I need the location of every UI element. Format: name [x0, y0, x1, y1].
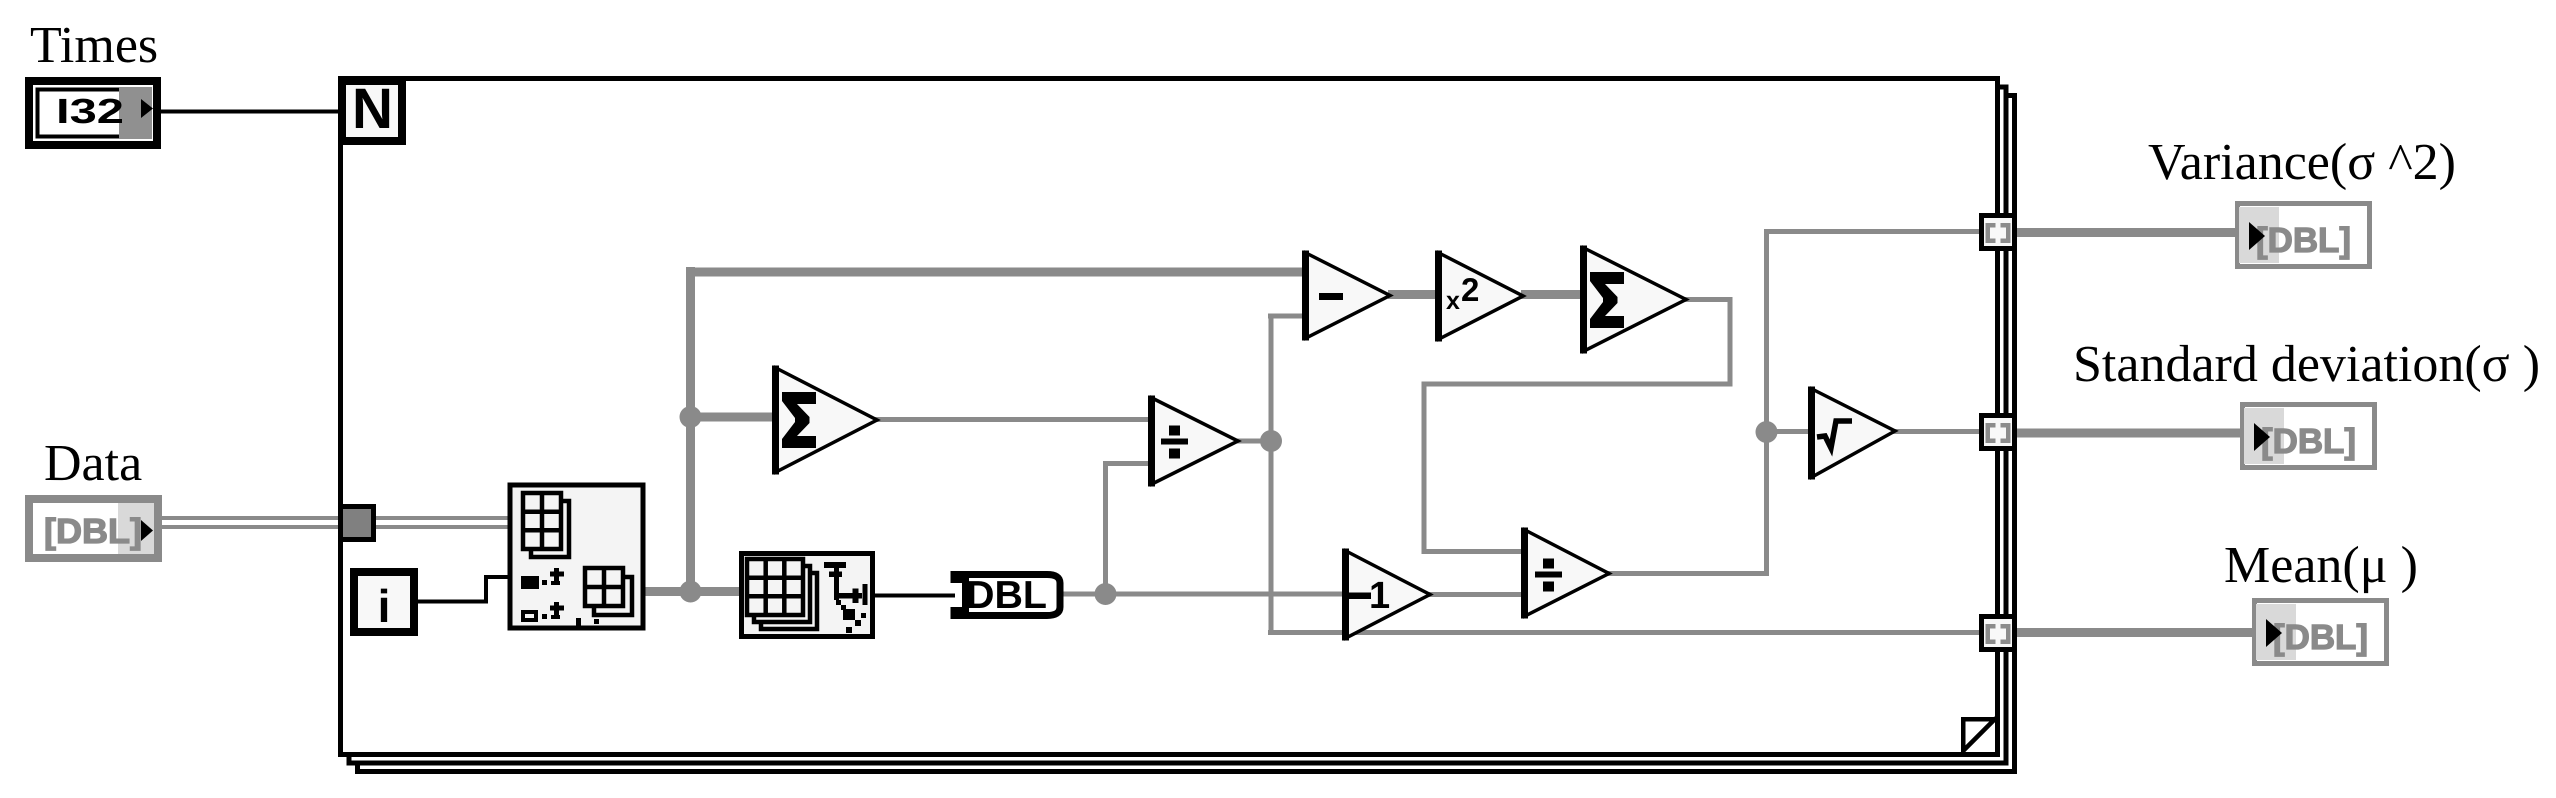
wire DBL output to Decrement input (thin): [1061, 592, 1346, 597]
loop count terminal N: [338, 77, 406, 145]
svg-text:Standard deviation(σ ): Standard deviation(σ ): [2073, 336, 2540, 393]
svg-text:x: x: [1446, 287, 1460, 315]
svg-text:N: N: [352, 77, 393, 141]
wire Std tunnel to indicator (thick): [2015, 429, 2242, 438]
wire Square output to Sum2 (thick): [1521, 290, 1584, 299]
wire Sum1 output to Divide1 (thin): [875, 417, 1152, 422]
loop resize folded corner: [1961, 717, 1996, 752]
svg-text:DBL: DBL: [966, 574, 1047, 617]
Square x^2 triangle: [1435, 251, 1523, 342]
for-loop frame shadow 2: [349, 87, 2006, 763]
wire Index Array output row array (thick): [643, 587, 741, 596]
control terminal Data [DBL]: [29, 499, 158, 558]
Index Array function icon: [510, 485, 643, 630]
svg-text:i: i: [378, 580, 391, 632]
svg-text:[DBL]: [DBL]: [2261, 422, 2356, 461]
output tunnel Mean []: [1982, 617, 2015, 650]
for-loop frame N: [341, 79, 1998, 755]
wire Data array (double line) into loop to Index Array: [160, 516, 510, 520]
indicator Standard deviation [DBL]: [2243, 405, 2375, 468]
wire Divide1 output to junction: [1236, 439, 1271, 444]
Subtract triangle: [1302, 251, 1390, 341]
Decrement -1 triangle: [1342, 549, 1430, 641]
for-loop frame shadow 3: [358, 96, 2015, 772]
loop iteration terminal i: [350, 568, 418, 636]
svg-text:I32: I32: [56, 92, 124, 131]
wire array branch to Sum1 input (thick): [686, 413, 776, 422]
junction mean value split: [1095, 583, 1117, 605]
svg-text:[DBL]: [DBL]: [44, 512, 142, 551]
svg-text:Times: Times: [30, 17, 158, 74]
Divide2 triangle: [1521, 528, 1609, 619]
wire Subtract output to Square (thick): [1388, 290, 1439, 299]
indicator Variance [DBL]: [2238, 204, 2370, 267]
Divide1 triangle: [1148, 396, 1238, 487]
svg-text:Data: Data: [44, 435, 142, 492]
svg-text:[DBL]: [DBL]: [2273, 618, 2368, 657]
svg-text:2: 2: [1461, 271, 1479, 308]
DBL conversion bubble: [954, 574, 1060, 617]
wire variance rail up and right to Variance tunnel: [1764, 229, 1769, 432]
wire mean vertical branch up to Subtract lower input: [1269, 314, 1274, 442]
Sum2 triangle: [1580, 246, 1686, 354]
control terminal I32 (Times): [25, 77, 161, 149]
wire vertical array branch up from junction: [686, 267, 695, 592]
Square Root triangle: [1808, 387, 1895, 480]
junction variance split: [1756, 421, 1778, 443]
wire junction to Sqrt input: [1764, 429, 1812, 434]
svg-text:Mean(μ ): Mean(μ ): [2224, 537, 2418, 594]
wire Divide2 output elbow up to variance junction: [1607, 571, 1767, 576]
array indexing function icon: [742, 554, 873, 637]
wire top rail array to Subtract input (thick): [686, 268, 1306, 277]
wire Sum2 output elbow path to Divide2 upper input: [1684, 297, 1730, 302]
svg-text:1: 1: [1369, 575, 1390, 617]
wire mean vertical branch down and long run to Mean tunnel: [1269, 441, 1274, 633]
junction array split at Index Array output: [680, 581, 702, 603]
wire Variance tunnel to indicator (thick): [2015, 228, 2237, 237]
wire i terminal to Index Array (black): [416, 600, 488, 604]
wire mean elbow from DBL junction to Divide1 lower input: [1103, 461, 1108, 594]
svg-text:[DBL]: [DBL]: [2256, 221, 2351, 260]
output tunnel Variance []: [1982, 216, 2015, 249]
multiply-accumulate Sum1 triangle: [772, 366, 877, 475]
indicator Mean [DBL]: [2255, 601, 2387, 664]
wire Sqrt output to Std tunnel: [1893, 429, 1981, 434]
wire array-to-scalar icon to DBL conversion (black): [873, 594, 955, 598]
junction array split to Sum1: [680, 406, 702, 428]
wire Times I32 to loop count N (scalar black): [158, 110, 340, 114]
svg-text:Variance(σ ^2): Variance(σ ^2): [2148, 134, 2456, 191]
output tunnel Standard deviation []: [1982, 416, 2015, 449]
wire Mean tunnel to indicator (thick): [2015, 628, 2254, 637]
junction mean branch split: [1260, 430, 1282, 452]
wire Decrement output to Divide2 lower input: [1428, 592, 1525, 597]
input tunnel Data (auto-index off): [341, 507, 374, 540]
